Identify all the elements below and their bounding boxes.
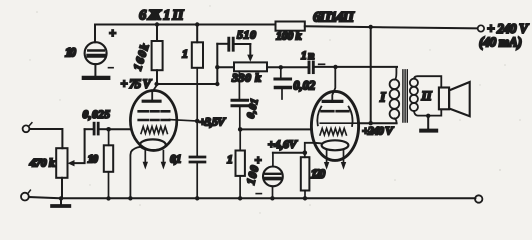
input terminal top	[23, 125, 30, 132]
svg-text:II: II	[421, 88, 433, 103]
grid dashes row1 V1	[139, 110, 170, 113]
node cathode V1 ground	[128, 196, 132, 200]
svg-text:+4,6V: +4,6V	[268, 137, 298, 151]
terminal bottom right	[475, 195, 482, 202]
wire grid V1	[109, 128, 132, 130]
wire bottom rail	[29, 197, 476, 198]
node R7 ground	[238, 196, 242, 200]
svg-text:100: 100	[245, 164, 261, 186]
wire rail drop to screen node V2	[370, 27, 372, 123]
terminal +240V	[478, 25, 484, 31]
capacitor C3 0,01 tone	[232, 71, 261, 129]
svg-text:330 k: 330 k	[231, 71, 261, 85]
node anode V1	[154, 82, 158, 86]
screen line V2	[320, 122, 358, 124]
node cathode V2	[303, 150, 308, 155]
wire wiper arrow into 330k	[249, 44, 251, 55]
svg-text:+ 75 V: + 75 V	[121, 77, 153, 91]
node grid V2	[238, 127, 243, 132]
grid top bar V2	[323, 100, 342, 103]
anode bar V1	[143, 100, 160, 103]
node pot ground	[59, 196, 63, 200]
resistor R8 120 cathode	[301, 157, 326, 198]
svg-text:120: 120	[311, 167, 326, 181]
heater arrow 2 V1	[162, 151, 164, 162]
svg-text:10: 10	[88, 154, 99, 166]
capacitor C1 10uF electrolytic	[65, 25, 116, 76]
wire +4,6V cathode node	[273, 152, 305, 154]
beam plate left V2	[317, 107, 321, 126]
ground under C1	[84, 76, 109, 80]
ground under 470k	[60, 198, 62, 204]
svg-text:+: +	[255, 154, 262, 168]
cathode oval V2	[322, 140, 349, 150]
potentiometer R5 470k volume	[29, 148, 68, 198]
grid dashes row2 V1	[139, 119, 170, 122]
svg-text:+240 V: +240 V	[362, 124, 394, 138]
svg-text:100 k: 100 k	[276, 29, 302, 43]
svg-text:0,02: 0,02	[293, 79, 315, 93]
node ground tap secondary	[426, 114, 430, 118]
potentiometer R3 330k	[217, 62, 309, 84]
svg-text:(40 mA): (40 mA)	[479, 35, 522, 50]
svg-text:1: 1	[227, 154, 233, 166]
node anode lead V2	[333, 65, 337, 69]
node R6 ground	[106, 196, 110, 200]
beam plate right V2	[349, 107, 353, 126]
node transformer feed	[369, 25, 373, 29]
speaker	[439, 82, 470, 116]
resistor R6 10M grid leak	[88, 129, 114, 198]
svg-text:10: 10	[65, 46, 77, 60]
heater arrow 1 V2	[326, 151, 328, 163]
wire screen V2 to transformer	[359, 122, 397, 124]
tick input terminal bottom	[28, 190, 31, 193]
wire 510 branch vertical	[216, 44, 218, 84]
node 160k top	[155, 22, 159, 26]
wire top rail right	[305, 26, 478, 28]
tube V1 6Ж1П	[130, 84, 197, 198]
wiper arrow 470k	[68, 160, 75, 166]
capacitor C6 0,1 screen bypass	[170, 121, 205, 198]
node screen resistor top	[195, 22, 199, 26]
cathode oval V1	[140, 139, 166, 150]
svg-text:6Ж1П: 6Ж1П	[139, 7, 184, 23]
node 0,1 ground	[195, 196, 199, 200]
node grid V1	[106, 127, 111, 132]
node R8 ground	[303, 196, 307, 200]
cathode exit wire V1	[130, 147, 140, 199]
zigzag grid V2	[320, 128, 346, 135]
tick input terminal top	[29, 123, 32, 127]
capacitor C7 0,025 coupling	[83, 109, 111, 134]
ground transformer	[427, 116, 429, 129]
node 0.02 branch	[279, 65, 283, 69]
input terminal bottom	[21, 193, 29, 201]
capacitor C2 510pF	[217, 28, 256, 51]
svg-text:0,025: 0,025	[83, 109, 111, 121]
svg-text:+: +	[109, 27, 116, 41]
svg-text:6П14П: 6П14П	[313, 9, 355, 25]
resistor R7 1M grid V2	[227, 129, 245, 198]
svg-text:1: 1	[182, 47, 188, 61]
node C8 ground	[270, 196, 274, 200]
heater arrow 2 V2	[343, 151, 345, 162]
resistor R2 1M screen dropper	[182, 25, 203, 122]
cathode exit wire V2	[305, 143, 322, 157]
svg-text:160k: 160k	[132, 42, 152, 72]
zigzag grid V1	[141, 127, 167, 134]
svg-text:+3,5V: +3,5V	[199, 114, 226, 128]
heater arrow 1 V1	[144, 150, 146, 162]
wire anode node V1	[157, 83, 218, 85]
node +3,5V	[195, 119, 200, 124]
transformer core	[403, 70, 407, 122]
transformer primary winding I	[379, 67, 399, 123]
wire screen V1 to +3,5V node	[170, 120, 198, 121]
svg-text:510: 510	[237, 28, 256, 42]
screen dashes V2	[322, 110, 349, 113]
resistor R1 160k anode load	[132, 25, 163, 85]
capacitor C8 100uF cathode bypass	[245, 153, 283, 199]
capacitor C5 1n coupling	[301, 50, 397, 73]
resistor R4 100k	[276, 22, 305, 43]
wire grid network V2	[240, 128, 311, 130]
svg-text:1n: 1n	[301, 50, 315, 62]
svg-text:0,1: 0,1	[170, 154, 182, 166]
node 330k left	[215, 65, 219, 69]
transformer secondary winding II	[410, 76, 441, 115]
node screen V2	[369, 121, 373, 125]
svg-text:I: I	[379, 91, 386, 106]
tube V2 6П14П	[305, 67, 359, 170]
capacitor C4 0,02	[275, 67, 315, 99]
wire input to volume pot	[30, 129, 63, 148]
wire top rail left	[95, 24, 276, 26]
svg-text:470 k: 470 k	[29, 156, 56, 170]
node 510 branch bottom	[215, 82, 219, 86]
